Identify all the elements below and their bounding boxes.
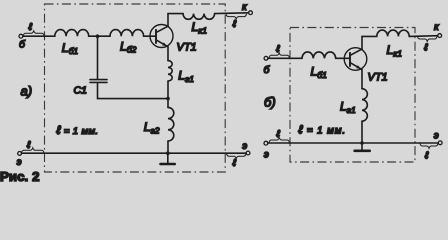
svg-text:э1: э1 <box>347 105 356 115</box>
svg-text:L: L <box>311 65 318 79</box>
svg-text:э: э <box>264 150 269 161</box>
terminal b (right circuit) <box>264 56 268 60</box>
dimension brace l at bottom-left terminal (right) <box>269 138 290 143</box>
terminal k (right circuit) <box>438 34 442 38</box>
shield enclosure box a) <box>45 4 226 172</box>
wire collector up (right) <box>361 36 363 49</box>
terminal k (left circuit) <box>249 11 253 15</box>
ground (right) <box>361 143 363 151</box>
transistor VT1 (right) <box>344 48 367 71</box>
node ground junction (right) <box>360 141 364 145</box>
svg-text:Рис. 2: Рис. 2 <box>0 169 40 184</box>
wire C1 branch vertical <box>97 36 99 79</box>
svg-text:э: э <box>17 157 22 168</box>
wire collector up <box>167 14 169 27</box>
svg-text:э: э <box>242 141 247 152</box>
inductor Lb2 <box>110 30 144 37</box>
terminal e (bottom right of left circuit) <box>246 151 250 155</box>
svg-text:ℓ = 1 мм.: ℓ = 1 мм. <box>299 123 346 137</box>
inductor Lb1 (left) <box>55 30 89 37</box>
svg-text:к1: к1 <box>198 25 207 35</box>
wire base lead-in (right) <box>268 57 302 59</box>
terminal e (bottom right, right circuit) <box>438 141 442 145</box>
dimension brace l at base terminal (right) <box>269 53 290 58</box>
wire Lb1 to Lb2 <box>89 35 110 37</box>
svg-text:L: L <box>120 39 127 53</box>
wire base lead-in <box>23 35 55 37</box>
capacitor C1 <box>90 79 107 81</box>
wire Le1 to ground rail (right) <box>361 121 363 143</box>
wire Le2 to ground rail <box>167 141 169 153</box>
wire Le1 to node <box>167 81 169 107</box>
wire ground rail (left circuit) <box>22 152 247 154</box>
terminal e (emitter, bottom left) <box>18 152 22 156</box>
svg-text:L: L <box>62 41 69 55</box>
wire to collector terminal <box>215 12 249 15</box>
wire collector top run (right) <box>362 35 377 37</box>
transistor VT1 (left) <box>150 25 173 48</box>
dimension brace l at collector terminal (right) <box>418 37 438 42</box>
svg-text:L: L <box>178 69 185 83</box>
wire to collector terminal (right) <box>409 35 438 38</box>
inductor Le2 <box>168 107 174 141</box>
svg-text:VT1: VT1 <box>177 42 197 54</box>
svg-text:ℓ = 1 мм.: ℓ = 1 мм. <box>57 123 99 137</box>
terminal e (bottom left, right circuit) <box>264 141 268 145</box>
dimension brace l at base terminal <box>23 31 44 36</box>
node ground junction <box>166 151 170 155</box>
svg-text:C1: C1 <box>74 85 87 97</box>
svg-text:L: L <box>387 43 394 57</box>
svg-text:б2: б2 <box>127 45 137 55</box>
node base junction <box>96 34 100 38</box>
shield enclosure box b) <box>290 28 415 163</box>
ground <box>167 153 169 164</box>
wire ground rail (right circuit) <box>268 142 438 144</box>
node emitter junction <box>166 97 170 101</box>
svg-text:L: L <box>340 100 347 114</box>
svg-text:VT1: VT1 <box>368 72 388 84</box>
dimension brace l at bottom-right terminal (right) <box>420 144 438 149</box>
inductor Lb1 (right) <box>302 52 336 58</box>
inductor Lk1 (left, bumps down) <box>183 14 215 20</box>
wire emitter down (right) <box>361 70 363 89</box>
svg-text:L: L <box>192 20 199 34</box>
svg-text:к1: к1 <box>393 48 402 58</box>
svg-text:L: L <box>144 120 151 134</box>
svg-text:э1: э1 <box>185 74 194 84</box>
dimension brace l at collector terminal <box>226 14 247 19</box>
svg-text:а): а) <box>21 84 33 99</box>
wire C1 bottom to emitter node <box>98 83 169 98</box>
wire collector top run <box>168 13 183 15</box>
svg-text:б): б) <box>264 95 276 110</box>
inductor Le1 (right) <box>362 89 367 121</box>
inductor Le1 (left) <box>168 61 172 81</box>
svg-text:э2: э2 <box>151 125 160 135</box>
dimension brace l at bottom-right terminal <box>227 154 247 159</box>
dimension brace l at bottom-left terminal <box>22 148 45 153</box>
terminal b (base, left circuit) <box>19 34 23 38</box>
inductor Lk1 (right) <box>377 30 409 36</box>
svg-text:э: э <box>434 131 439 142</box>
svg-text:б1: б1 <box>69 46 79 56</box>
svg-text:б1: б1 <box>317 70 327 80</box>
wire emitter down <box>167 47 169 61</box>
